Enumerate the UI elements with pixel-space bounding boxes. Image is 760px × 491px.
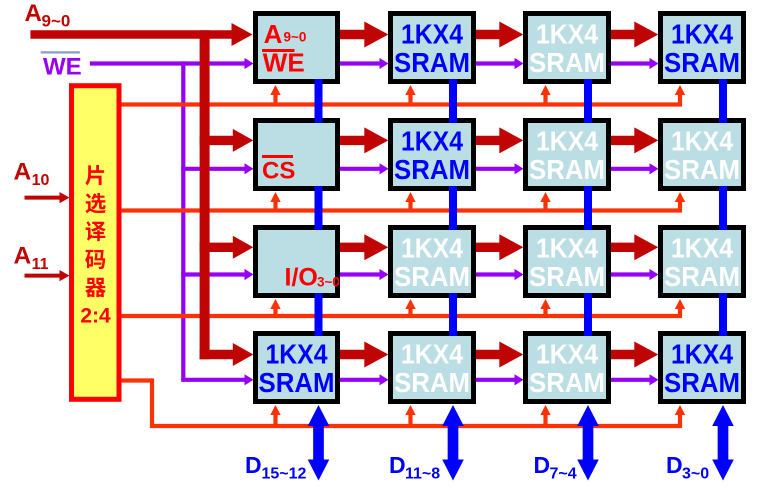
svg-text:D: D (389, 452, 406, 478)
wire WE row3 col2-col3 (476, 272, 516, 276)
arrow WE into row-1 column-4 SRAM (650, 58, 659, 69)
wire data bus col4 row1-row2 (719, 79, 727, 123)
arrow address into row-1 column-2 SRAM (364, 22, 388, 48)
wire CS3 (orange select line row 4) (121, 381, 682, 427)
wire address row4 col1-col2 (339, 350, 366, 359)
data bus D port col3 up arrowhead (577, 405, 599, 426)
wire CS2 (orange select line row 3) (121, 314, 682, 318)
wire data bus col2 row3-row4 (449, 293, 457, 336)
svg-text:SRAM: SRAM (259, 367, 335, 398)
wire address row3 col1-col2 (339, 243, 366, 252)
wire WE main horizontal (90, 61, 246, 65)
svg-text:1KX4: 1KX4 (671, 126, 733, 157)
arrow CS0 into column-3 SRAM (540, 85, 550, 95)
wire address row4 col2-col3 (475, 350, 501, 359)
SRAM chip U10 box (row 3 col 1) (256, 228, 338, 296)
svg-text:SRAM: SRAM (664, 261, 740, 292)
data bus D port col1 up arrowhead (308, 405, 330, 426)
wire WE branch row 3 (181, 272, 246, 276)
wire CS0 riser col4 (678, 93, 682, 105)
wire address row4 col3-col4 (610, 350, 636, 359)
data bus D port col1 down arrowhead (308, 460, 330, 481)
arrow address into row-4 column-3 SRAM (499, 342, 523, 368)
arrow WE into row-3 column-4 SRAM (650, 269, 659, 280)
svg-text:11: 11 (32, 256, 49, 273)
svg-text:1KX4: 1KX4 (401, 126, 463, 157)
wire WE row1 col2-col3 (476, 61, 516, 65)
wire data bus col4 row2-row3 (719, 186, 727, 230)
arrow A10 into decoder (60, 192, 70, 203)
wire WE row2 col1-col2 (340, 167, 381, 171)
svg-text:1KX4: 1KX4 (401, 233, 463, 264)
wire CS1 stub col2 (408, 200, 412, 213)
wire WE row3 col3-col4 (611, 272, 651, 276)
wire address row2 col2-col3 (475, 136, 501, 145)
wire A9-0 arm row 4 (200, 350, 234, 359)
SRAM chip U16 box (row 4 col 3) (526, 334, 609, 402)
arrow address into row-2 column-4 SRAM (634, 127, 658, 153)
wire WE row4 col2-col3 (476, 378, 516, 382)
SRAM chip U6 box (row 2 col 1) (256, 121, 338, 189)
svg-text:SRAM: SRAM (529, 154, 605, 185)
arrow A9-0 into row-3 column-1 SRAM (233, 236, 254, 259)
svg-text:10: 10 (32, 172, 50, 189)
svg-text:SRAM: SRAM (394, 261, 470, 292)
wire CS2 stub col1 (273, 307, 277, 318)
wire data bus col1 row1-row2 (315, 79, 323, 123)
arrow WE into row-2 column-1 SRAM (245, 163, 254, 174)
arrow WE into row-2 column-2 SRAM (380, 163, 389, 174)
svg-text:9~0: 9~0 (284, 30, 307, 45)
svg-text:I/O: I/O (285, 264, 318, 292)
arrow WE into row-4 column-2 SRAM (380, 374, 389, 385)
wire CS1 stub col1 (273, 200, 277, 213)
decoder label char 器 (85, 278, 106, 297)
arrow address into row-3 column-4 SRAM (634, 234, 658, 260)
data bus D port col3 shaft (583, 424, 594, 461)
wire data bus col2 row1-row2 (449, 79, 457, 123)
arrow WE into row-4 column-1 SRAM (245, 374, 254, 385)
wire CS2 riser col4 (678, 307, 682, 316)
arrow CS1 into column-4 SRAM (675, 192, 685, 202)
decoder U1 (chip-select decoder 2:4) box (72, 86, 120, 400)
arrow address into row-1 column-3 SRAM (499, 22, 523, 48)
arrow CS0 into column-2 SRAM (405, 85, 415, 95)
arrow CS1 into column-3 SRAM (540, 192, 550, 202)
wire CS3 stub col3 (543, 413, 547, 428)
arrow WE into row-3 column-3 SRAM (515, 269, 524, 280)
SRAM chip U4 box (row 1 col 3) (526, 14, 609, 82)
wire CS3 stub col1 (273, 413, 277, 428)
arrow CS1 into column-2 SRAM (405, 192, 415, 202)
wire data bus col3 row1-row2 (584, 79, 592, 123)
SRAM chip U5 box (row 1 col 4) (661, 14, 744, 82)
arrow address into row-2 column-2 SRAM (364, 127, 388, 153)
arrow WE into row-3 column-2 SRAM (380, 269, 389, 280)
wire WE row1 col3-col4 (611, 61, 651, 65)
arrow WE into row-1 column-2 SRAM (380, 58, 389, 69)
SRAM pin WE overline (262, 49, 295, 52)
wire CS1 riser col4 (678, 200, 682, 211)
wire data bus col1 row3-row4 (315, 293, 323, 336)
arrow WE into row-2 column-4 SRAM (650, 163, 659, 174)
arrow address into row-4 column-2 SRAM (364, 342, 388, 368)
svg-text:SRAM: SRAM (529, 367, 605, 398)
data bus D port col2 shaft (448, 424, 459, 461)
SRAM chip U12 box (row 3 col 3) (526, 228, 609, 296)
svg-text:A: A (264, 19, 283, 49)
wire A9-0 vertical bus (200, 30, 210, 359)
svg-text:2:4: 2:4 (80, 305, 111, 328)
wire WE row4 col3-col4 (611, 378, 651, 382)
svg-text:D: D (245, 452, 262, 478)
wire A9-0 arm row 2 (200, 136, 234, 145)
wire address row1 col3-col4 (610, 30, 636, 39)
SRAM chip U3 box (row 1 col 2) (391, 14, 474, 82)
svg-text:D: D (666, 452, 683, 478)
svg-text:1KX4: 1KX4 (401, 339, 463, 370)
wire data bus col4 row3-row4 (719, 293, 727, 336)
arrow A9-0 into row-1 column-1 SRAM (232, 23, 253, 46)
wire WE branch row 4 (181, 378, 246, 382)
arrow CS2 into column-4 SRAM (675, 299, 685, 309)
svg-text:1KX4: 1KX4 (536, 126, 598, 157)
svg-text:9~0: 9~0 (42, 12, 71, 31)
svg-text:A: A (14, 159, 32, 186)
arrow CS2 into column-1 SRAM (270, 299, 280, 309)
decoder label char 片 (85, 165, 104, 185)
svg-text:1KX4: 1KX4 (536, 19, 598, 50)
svg-text:1KX4: 1KX4 (671, 19, 733, 50)
data bus D port col4 up arrowhead (712, 405, 734, 426)
arrow address into row-3 column-3 SRAM (499, 234, 523, 260)
SRAM chip U9 box (row 2 col 4) (661, 121, 744, 189)
wire CS2 stub col2 (408, 307, 412, 318)
wire CS0 stub col3 (543, 93, 547, 107)
wire WE row2 col2-col3 (476, 167, 516, 171)
arrow CS3 into column-3 SRAM (540, 405, 550, 415)
wire WE branch row 2 (181, 167, 246, 171)
svg-text:D: D (534, 452, 551, 478)
arrow WE into row-1 column-1 SRAM (245, 58, 254, 69)
wire A9-0 arm row 3 (200, 243, 234, 252)
SRAM chip U14 box (row 4 col 1) (256, 334, 338, 402)
wire A9-0 main horizontal bus (30, 30, 233, 39)
wire data bus col3 row2-row3 (584, 186, 592, 230)
arrow CS3 into column-4 SRAM (675, 405, 685, 415)
arrow WE into row-3 column-1 SRAM (245, 269, 254, 280)
data bus D port col2 up arrowhead (442, 405, 464, 426)
wire CS1 (orange select line row 2) (121, 208, 682, 212)
svg-text:3~0: 3~0 (317, 275, 340, 290)
svg-text:7~4: 7~4 (550, 466, 577, 483)
arrow WE into row-2 column-3 SRAM (515, 163, 524, 174)
svg-text:15~12: 15~12 (262, 466, 307, 483)
svg-text:CS: CS (262, 158, 295, 185)
arrow WE into row-1 column-3 SRAM (515, 58, 524, 69)
wire address row2 col1-col2 (339, 136, 366, 145)
svg-text:SRAM: SRAM (529, 261, 605, 292)
arrow CS0 into column-1 SRAM (270, 85, 280, 95)
decoder label char 码 (85, 250, 105, 269)
wire WE row3 col1-col2 (340, 272, 381, 276)
svg-text:A: A (14, 243, 32, 270)
svg-text:A: A (25, 0, 42, 27)
wire data bus col3 row3-row4 (584, 293, 592, 336)
arrow address into row-2 column-3 SRAM (499, 127, 523, 153)
arrow CS3 into column-2 SRAM (405, 405, 415, 415)
decoder label char 译 (86, 221, 106, 241)
SRAM chip U8 box (row 2 col 3) (526, 121, 609, 189)
decoder label char 选 (85, 193, 105, 213)
wire address row3 col3-col4 (610, 243, 636, 252)
wire data bus col2 row2-row3 (449, 186, 457, 230)
wire address row3 col2-col3 (475, 243, 501, 252)
svg-text:1KX4: 1KX4 (671, 339, 733, 370)
arrow A9-0 into row-4 column-1 SRAM (233, 343, 254, 366)
label WE overline (41, 51, 80, 53)
data bus D port col1 shaft (313, 424, 324, 461)
wire WE row4 col1-col2 (340, 378, 381, 382)
svg-text:1KX4: 1KX4 (536, 339, 598, 370)
svg-text:3~0: 3~0 (682, 466, 709, 483)
SRAM pin CS overline (262, 155, 293, 158)
wire CS3 stub col2 (408, 413, 412, 428)
SRAM chip U2 box (row 1 col 1) (256, 14, 338, 82)
arrow CS3 into column-1 SRAM (270, 405, 280, 415)
svg-text:SRAM: SRAM (394, 154, 470, 185)
wire A11 input (25, 274, 61, 278)
wire A10 input (25, 196, 61, 200)
svg-text:SRAM: SRAM (529, 47, 605, 78)
SRAM chip U11 box (row 3 col 2) (391, 228, 474, 296)
wire CS0 stub col1 (273, 93, 277, 107)
svg-text:1KX4: 1KX4 (266, 339, 328, 370)
data bus D port col4 down arrowhead (712, 460, 734, 481)
wire address row2 col3-col4 (610, 136, 636, 145)
arrow WE into row-4 column-4 SRAM (650, 374, 659, 385)
data bus D port col4 shaft (718, 424, 729, 461)
svg-text:SRAM: SRAM (394, 47, 470, 78)
arrow CS2 into column-2 SRAM (405, 299, 415, 309)
arrow address into row-1 column-4 SRAM (634, 22, 658, 48)
svg-text:SRAM: SRAM (664, 367, 740, 398)
svg-text:11~8: 11~8 (405, 466, 440, 483)
SRAM chip U13 box (row 3 col 4) (661, 228, 744, 296)
SRAM chip U15 box (row 4 col 2) (391, 334, 474, 402)
data bus D port col2 down arrowhead (442, 460, 464, 481)
arrow address into row-4 column-4 SRAM (634, 342, 658, 368)
wire address row1 col1-col2 (339, 30, 366, 39)
wire WE row2 col3-col4 (611, 167, 651, 171)
svg-text:WE: WE (263, 48, 305, 78)
svg-text:WE: WE (43, 54, 82, 81)
SRAM chip U7 box (row 2 col 2) (391, 121, 474, 189)
svg-text:1KX4: 1KX4 (671, 233, 733, 264)
wire address row1 col2-col3 (475, 30, 501, 39)
wire data bus col1 row2-row3 (315, 186, 323, 230)
wire WE row1 col1-col2 (340, 61, 381, 65)
wire WE vertical drop (181, 61, 185, 379)
wire CS0 (orange select line row 1) (121, 102, 682, 106)
svg-text:SRAM: SRAM (664, 47, 740, 78)
arrow address into row-3 column-2 SRAM (364, 234, 388, 260)
wire CS3 riser col4 (678, 413, 682, 426)
svg-text:1KX4: 1KX4 (401, 19, 463, 50)
arrow A11 into decoder (60, 270, 70, 281)
SRAM chip U17 box (row 4 col 4) (661, 334, 744, 402)
arrow CS2 into column-3 SRAM (540, 299, 550, 309)
arrow CS1 into column-1 SRAM (270, 192, 280, 202)
wire CS0 stub col2 (408, 93, 412, 107)
svg-text:SRAM: SRAM (664, 154, 740, 185)
svg-text:SRAM: SRAM (394, 367, 470, 398)
data bus D port col3 down arrowhead (577, 460, 599, 481)
wire CS2 stub col3 (543, 307, 547, 318)
arrow A9-0 into row-2 column-1 SRAM (233, 129, 254, 152)
arrow WE into row-4 column-3 SRAM (515, 374, 524, 385)
arrow CS0 into column-4 SRAM (675, 85, 685, 95)
svg-text:1KX4: 1KX4 (536, 233, 598, 264)
wire CS1 stub col3 (543, 200, 547, 213)
